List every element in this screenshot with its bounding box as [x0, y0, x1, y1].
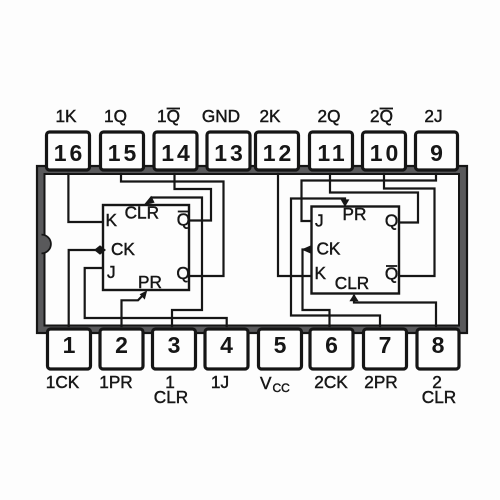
svg-text:PR: PR [138, 272, 162, 292]
wire pin6 2CK to CK input [303, 250, 330, 327]
wire pin2 1PR to PR arrow [122, 294, 145, 327]
svg-text:K: K [315, 263, 327, 283]
pin 2 [100, 329, 143, 369]
svg-text:V: V [260, 373, 272, 393]
svg-text:CK: CK [111, 239, 135, 259]
svg-text:1CK: 1CK [46, 372, 80, 392]
pin 9 [416, 132, 458, 170]
svg-text:GND: GND [202, 106, 240, 126]
wire pin1 1CK to CK input [69, 250, 97, 326]
wire pin3 1CLR to CLR arrow [152, 198, 202, 327]
wire pin10 2Q-bar to Q-bar output [384, 174, 435, 276]
svg-text:1K: 1K [55, 106, 77, 126]
CLR arrowhead U1 [144, 196, 155, 205]
wire pin14 1Q-bar to Q-bar output [175, 174, 212, 221]
pin 3 [153, 329, 196, 369]
pin 16 [47, 132, 90, 170]
pin 6 [310, 329, 353, 369]
svg-text:11: 11 [317, 140, 347, 166]
svg-text:16: 16 [54, 140, 86, 166]
svg-text:2CK: 2CK [314, 372, 348, 392]
svg-text:Q: Q [177, 210, 190, 230]
svg-text:1J: 1J [211, 372, 229, 392]
wire pin7 2PR to PR arrow [291, 199, 380, 327]
pin 14 [154, 132, 197, 170]
svg-text:1PR: 1PR [99, 372, 132, 392]
svg-text:15: 15 [108, 140, 140, 166]
PR arrowhead U2 [341, 199, 350, 207]
svg-text:3: 3 [168, 332, 181, 358]
svg-text:2J: 2J [424, 106, 442, 126]
svg-text:1: 1 [63, 332, 76, 358]
pin 13 [207, 132, 250, 170]
svg-text:J: J [315, 211, 324, 231]
svg-text:12: 12 [263, 140, 295, 166]
PR arrowhead U1 [140, 290, 148, 299]
CK diamond arrow U2 [302, 245, 313, 255]
CLR arrowhead U2 [349, 294, 358, 301]
wire pin11 2Q to Q output [330, 174, 418, 223]
svg-text:CLR: CLR [125, 203, 159, 223]
svg-text:2K: 2K [259, 106, 281, 126]
svg-text:1Q: 1Q [104, 106, 127, 126]
pin 12 [256, 132, 299, 170]
flip-flop U2 box (right JK flip-flop) [312, 207, 400, 294]
IC body interior [45, 174, 460, 326]
svg-text:8: 8 [432, 332, 445, 358]
svg-text:K: K [106, 210, 118, 230]
svg-text:2PR: 2PR [364, 372, 397, 392]
pin 5 [259, 329, 302, 369]
svg-text:CLR: CLR [422, 387, 456, 407]
wire pin8 2CLR to CLR arrow [354, 296, 436, 326]
svg-text:Q: Q [385, 211, 398, 231]
pin 8 [417, 329, 459, 369]
svg-text:13: 13 [214, 140, 246, 166]
CK diamond arrow U1 [94, 245, 106, 255]
svg-text:14: 14 [161, 140, 193, 166]
svg-text:Q: Q [176, 263, 189, 283]
pin 7 [364, 329, 407, 369]
svg-text:2Q: 2Q [318, 106, 341, 126]
svg-text:4: 4 [220, 332, 233, 358]
svg-text:6: 6 [325, 332, 338, 358]
IC package body (DIP-16 outline band) [37, 166, 467, 333]
pin 1 [48, 329, 91, 369]
wire pin15 1Q to Q output [121, 174, 224, 276]
svg-text:CC: CC [273, 381, 291, 395]
wire pin16 1K to K input [68, 174, 103, 222]
svg-text:J: J [107, 262, 116, 282]
flip-flop U1 box (left JK flip-flop) [103, 205, 189, 290]
svg-text:CK: CK [317, 239, 341, 259]
svg-text:PR: PR [343, 204, 367, 224]
svg-text:2: 2 [115, 332, 128, 358]
wire pin9 2J to J input [302, 174, 437, 221]
svg-text:5: 5 [274, 332, 287, 358]
pin 11 [310, 132, 353, 170]
wire pin4 1J to J input [85, 268, 227, 326]
svg-text:9: 9 [430, 140, 443, 166]
svg-text:10: 10 [370, 140, 402, 166]
svg-text:CLR: CLR [154, 387, 188, 407]
svg-text:7: 7 [379, 332, 392, 358]
pin 10 [363, 132, 406, 170]
pin 15 [101, 132, 144, 170]
pin-1 index notch bump [42, 235, 51, 254]
wire pin12 2K to K input [278, 174, 312, 276]
pin 4 [205, 329, 248, 369]
svg-text:CLR: CLR [335, 273, 369, 293]
